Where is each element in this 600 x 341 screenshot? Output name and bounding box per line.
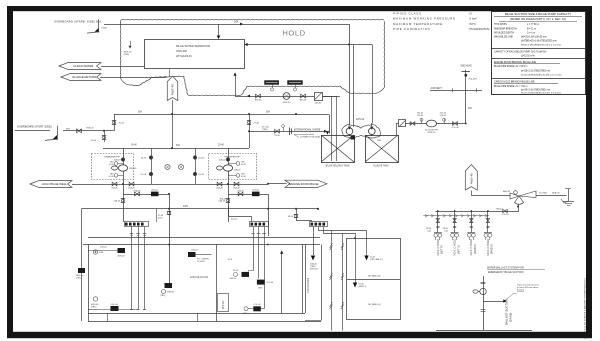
engine room boundary top upper <box>88 237 320 239</box>
wire main3 left drop <box>81 209 83 321</box>
wire valve down to manifold <box>436 205 519 212</box>
svg-text:26-40: 26-40 <box>119 123 125 125</box>
valve 25A-40 right b <box>234 182 239 186</box>
svg-text:4WS-50: 4WS-50 <box>428 132 436 134</box>
floor line <box>436 330 532 332</box>
wire branch to DB tank upper <box>332 231 367 256</box>
svg-text:24B-40: 24B-40 <box>219 201 226 203</box>
svg-text:250-40: 250-40 <box>417 115 424 117</box>
svg-text:25A-40: 25A-40 <box>233 187 240 190</box>
level switch box LS1 <box>265 81 280 85</box>
svg-text:DB TANK (H): DB TANK (H) <box>368 303 381 306</box>
wire pump feeds <box>348 125 351 128</box>
wire rose2 drops <box>253 226 255 270</box>
svg-text:ECR: ECR <box>228 259 233 261</box>
wire unit2 to rose2 <box>229 206 252 222</box>
overflow drop left of separator <box>130 41 132 46</box>
arrow up riser x282 <box>280 251 283 254</box>
svg-text:(TBD): (TBD) <box>102 28 108 30</box>
svg-text:COL-40: COL-40 <box>501 214 509 216</box>
rose box manifold 1 <box>125 222 149 227</box>
svg-text:34-40: 34-40 <box>233 270 239 272</box>
svg-text:30A-40: 30A-40 <box>114 159 121 162</box>
svg-text:INTERNATIONAL SHORE: INTERNATIONAL SHORE <box>294 129 321 132</box>
engine room bottom band <box>88 313 305 315</box>
gauge pair 3 <box>467 232 475 234</box>
pump unit 1 enclosure TRANSFER P/P <box>92 154 134 180</box>
wire hold pump discharge row <box>235 96 340 98</box>
valve 30-40 mid <box>149 156 152 159</box>
svg-text:42-40: 42-40 <box>241 176 246 178</box>
svg-text:AIR VENT: AIR VENT <box>431 87 443 90</box>
wire bilge pump suction header <box>103 148 249 150</box>
valve 31-40 <box>275 129 280 133</box>
svg-text:(AFT P): (AFT P) <box>441 245 444 254</box>
svg-text:38-40: 38-40 <box>288 216 294 218</box>
svg-text:(AFT S): (AFT S) <box>457 245 460 254</box>
valve with handwheel <box>480 288 486 294</box>
wire left wall stub <box>88 309 98 311</box>
ticks below manifold valves <box>436 226 439 228</box>
arrow into separator <box>217 36 221 40</box>
svg-text:CLEAN WATER: CLEAN WATER <box>73 64 93 68</box>
svg-text:SEA CH.: SEA CH. <box>552 191 560 194</box>
svg-text:(TBD): (TBD) <box>160 295 166 297</box>
svg-text:: 5 bar*: : 5 bar* <box>468 17 478 21</box>
svg-text:4WS: 4WS <box>183 206 188 208</box>
tank suction box <box>351 136 356 140</box>
svg-text:(LD): (LD) <box>427 230 431 232</box>
valve 33A-40 row2 <box>238 192 243 196</box>
svg-text:COFFERDAM: COFFERDAM <box>307 278 310 293</box>
manifold dashed line <box>423 215 489 217</box>
tank T2 sludge tank <box>366 136 399 163</box>
junction header 296 <box>295 113 297 115</box>
svg-text:dz=25+2.16√(TBD)(TBD) mm: dz=25+2.16√(TBD)(TBD) mm <box>521 69 550 72</box>
check valve 26-40 <box>112 120 116 122</box>
banner sludge outlet <box>61 74 101 81</box>
svg-text:HOLD: HOLD <box>282 28 305 37</box>
wire sludge discharge line <box>396 123 466 125</box>
junction sludge corner <box>465 123 467 125</box>
three-way valve BAL-A <box>510 193 519 199</box>
svg-text:(BASED ON RULES PART C, CH. 1,: (BASED ON RULES PART C, CH. 1, SEC. 10) <box>510 17 566 21</box>
valve 30A-40 unit1 <box>121 158 124 161</box>
black valve box row2 <box>252 192 260 197</box>
wire pennant to valve <box>472 191 511 196</box>
svg-text:TK 4WS: TK 4WS <box>197 261 205 263</box>
svg-text:31-40: 31-40 <box>274 135 280 137</box>
svg-text:CONNECTION 100A: CONNECTION 100A <box>300 135 320 138</box>
svg-text:(DN 65): (DN 65) <box>508 313 512 322</box>
wire strainer to drop <box>322 96 331 98</box>
wire riser 27-40 <box>249 114 251 131</box>
check valve 24B-40 unit1 <box>121 198 125 200</box>
svg-text:28-40: 28-40 <box>131 144 137 146</box>
arrow cofferdam discharge <box>311 256 315 261</box>
svg-text:100-40: 100-40 <box>198 158 205 160</box>
svg-text:4WS-200: 4WS-200 <box>176 49 187 53</box>
svg-text:250-40: 250-40 <box>440 115 447 117</box>
wire branch to ballast suction <box>483 301 504 303</box>
svg-text:MAIN BILGE LINE: MAIN BILGE LINE <box>494 36 513 39</box>
arrow DB tank lower suction <box>353 283 357 288</box>
valve manifold 3 <box>470 219 473 223</box>
wire riser emergency x282 <box>281 252 283 313</box>
arrow into separator right side <box>245 43 248 46</box>
valve 25A-40 left a <box>112 182 117 186</box>
svg-text:25B-40: 25B-40 <box>191 250 198 252</box>
svg-text:HOLD BILGE WELL: HOLD BILGE WELL <box>42 182 68 186</box>
wire separator feed line from pumps <box>235 74 237 97</box>
svg-text:BILGE PIPE INSIDE: dz = 7.52 m: BILGE PIPE INSIDE: dz = 7.52 m <box>494 86 527 88</box>
svg-text:CO-04: CO-04 <box>140 174 147 176</box>
svg-text:dH=25+1.68√L(B+D) mm: dH=25+1.68√L(B+D) mm <box>521 36 547 39</box>
wire elbow to rose3 <box>297 220 312 222</box>
svg-text:(TBD): (TBD) <box>91 306 97 308</box>
svg-text:EMERGENCY BILGE SUCTION: EMERGENCY BILGE SUCTION <box>488 271 524 274</box>
svg-text:BILGE SUCTION SIZE & BILGE PUM: BILGE SUCTION SIZE & BILGE PUMP CAPACITY <box>505 12 571 16</box>
svg-text:dz=50.04 (ROUNDED 50 DN 2 X 2.: dz=50.04 (ROUNDED 50 DN 2 X 2.3 mm) <box>521 74 562 76</box>
instrument lower left <box>93 297 97 301</box>
pennant ballast crossover <box>465 165 477 191</box>
wire pump2 drop <box>228 148 230 184</box>
wire drop to bottom well <box>261 308 265 310</box>
svg-text:: PN10(DIN2576): : PN10(DIN2576) <box>468 27 490 31</box>
pump P-hold 4WS <box>283 93 290 100</box>
valve OVB-40 <box>77 129 82 133</box>
svg-text:SND HEAD: SND HEAD <box>460 65 472 68</box>
svg-text:24B-40: 24B-40 <box>114 201 121 203</box>
gauge unit1 upper <box>118 163 123 165</box>
wire overboard port line <box>15 130 50 132</box>
junction pennant header <box>171 147 173 149</box>
banner bilge water outlet <box>59 63 101 70</box>
svg-text:dz=25+2.16√(TBD)(TBD) mm: dz=25+2.16√(TBD)(TBD) mm <box>521 89 550 92</box>
check valve 27-40 <box>247 120 251 122</box>
svg-text:4WS-xx: 4WS-xx <box>243 313 250 315</box>
black box B <box>257 280 265 285</box>
valve 25A-40 left b <box>129 182 134 186</box>
svg-text:(TBD): (TBD) <box>76 277 82 279</box>
svg-text:4WS-TK: 4WS-TK <box>124 51 133 53</box>
bilge well center box <box>165 283 173 288</box>
valve manifold 2 <box>453 219 456 223</box>
svg-text:29-40: 29-40 <box>218 144 224 146</box>
wire rose3 drop cofferdam <box>313 226 315 255</box>
svg-text:50A: 50A <box>138 110 142 113</box>
junction rose3 feed <box>295 208 297 210</box>
svg-text:dz=41.37 (ROUNDED 40 DN 2 X 2.: dz=41.37 (ROUNDED 40 DN 2 X 2.3 mm) <box>521 92 561 94</box>
pipe breaks on vertical 2 <box>341 243 344 247</box>
pump motor unit2 <box>217 166 223 170</box>
svg-text:L = 77.80 m: L = 77.80 m <box>527 24 539 26</box>
svg-text:25A-40: 25A-40 <box>128 187 135 190</box>
valve manifold 1 <box>436 219 439 223</box>
wire branch row unit2 <box>228 184 230 222</box>
svg-text:4WS: 4WS <box>99 252 104 254</box>
valve manifold 4 <box>486 219 489 223</box>
svg-text:250-40℅: 250-40℅ <box>469 78 478 81</box>
junction hold line <box>348 44 350 46</box>
wire tank2 stub up <box>396 124 398 136</box>
svg-text:CO-04: CO-04 <box>198 174 205 176</box>
wire manifold drop 3 <box>471 211 473 233</box>
svg-text:41-40: 41-40 <box>241 164 246 166</box>
banner engine room bilge main <box>285 180 327 187</box>
svg-text:4WS-30: 4WS-30 <box>129 168 137 170</box>
wire rose3 drop to break pipe 2 <box>324 227 343 331</box>
valve BW-40 left <box>256 94 261 98</box>
rose box manifold 3 <box>310 222 328 227</box>
wire emergency suction pipe <box>483 276 485 330</box>
svg-text:BAL-40: BAL-40 <box>503 190 511 193</box>
black valve box row1 <box>151 192 159 197</box>
svg-text:4WS-05: 4WS-05 <box>167 292 175 294</box>
banner hold bilge well <box>30 181 72 188</box>
junction below valve <box>517 206 519 208</box>
svg-text:(TBD) BAL-10: (TBD) BAL-10 <box>370 258 384 261</box>
svg-text:33A-40: 33A-40 <box>237 189 244 192</box>
strainer S1 square <box>315 93 323 101</box>
svg-text:COL-40: COL-40 <box>110 304 118 306</box>
svg-text:(FWD S): (FWD S) <box>491 244 494 254</box>
svg-text:ENGINE ROOM: ENGINE ROOM <box>190 276 208 279</box>
svg-text:MAXIMUM WORKING PRESSURE: MAXIMUM WORKING PRESSURE <box>393 17 456 21</box>
svg-text:dH=62.5 (ROUNDED 65 DN 1 X 2.5: dH=62.5 (ROUNDED 65 DN 1 X 2.5 mm) <box>521 45 561 47</box>
engine room right double wall <box>302 245 304 314</box>
gauge unit2 lower <box>228 175 236 177</box>
check valve 24B-40 unit2 <box>226 198 230 200</box>
valve CO-04 mid <box>149 172 152 175</box>
arrow DB tank upper suction <box>364 256 368 261</box>
svg-text:COL-40: COL-40 <box>266 282 274 284</box>
deck ticks rose1 <box>130 233 134 235</box>
valve CO-04 right col <box>193 172 196 175</box>
junction main3 vertical 169 <box>168 208 170 210</box>
svg-text:(LD): (LD) <box>444 230 448 232</box>
svg-text:SLUDGE TANK: SLUDGE TANK <box>373 165 389 168</box>
pump sludge P/P <box>427 120 437 127</box>
deck ticks rose2 <box>251 233 255 235</box>
pump P2 on sludge tank <box>369 128 376 135</box>
svg-text:50A: 50A <box>234 21 239 24</box>
svg-text:COL-40: COL-40 <box>451 127 459 129</box>
wire pennant stem down <box>172 100 174 148</box>
junction direct suction main3 <box>267 208 269 210</box>
svg-text:B = 11 m: B = 11 m <box>527 28 536 30</box>
wire branch to DB tank lower <box>343 234 356 283</box>
svg-text:Q=23.02 m³/h: Q=23.02 m³/h <box>521 54 535 57</box>
valve 25A-40 right a <box>217 182 222 186</box>
svg-text:(TBD): (TBD) <box>124 54 130 56</box>
arrow left on pump row <box>247 95 250 98</box>
wire manifold drop 1 <box>437 211 439 233</box>
svg-text:COL-40: COL-40 <box>253 304 261 306</box>
WS CO box <box>218 294 229 312</box>
svg-text:(TBD): (TBD) <box>262 129 268 131</box>
end tick main3 <box>317 208 319 210</box>
pump unit2 main <box>223 165 232 171</box>
junction unit1 header2 <box>122 183 124 185</box>
wire overboard starboard line <box>104 24 349 26</box>
wire rose1 drops <box>131 226 133 309</box>
wire drain below port line <box>104 131 106 142</box>
svg-text:27-40: 27-40 <box>254 123 260 125</box>
svg-text:MAXIMUM TEMPERATURE: MAXIMUM TEMPERATURE <box>393 22 443 26</box>
wire pumps to tank tops <box>349 135 351 136</box>
svg-text:600-40: 600-40 <box>231 219 238 221</box>
wire sounding pipe <box>465 74 467 124</box>
svg-text:50A-40: 50A-40 <box>310 262 318 265</box>
DB tank box <box>347 239 401 320</box>
gauge pair 2 <box>451 232 459 234</box>
svg-text:at least 450 mm above: at least 450 mm above <box>517 286 539 289</box>
overboard discharge symbol port <box>57 126 59 140</box>
junction port line <box>103 130 105 132</box>
gauge shore <box>283 127 285 131</box>
wire manifold drop 2 <box>454 211 456 233</box>
valve 100-40 right col <box>193 156 196 159</box>
svg-text:30A-40: 30A-40 <box>219 159 226 162</box>
pump motor unit1 <box>112 166 118 170</box>
flange international shore connection <box>289 128 291 136</box>
instrument circle A <box>165 164 170 169</box>
wire separator drain to pennant <box>169 69 171 76</box>
svg-text:BALLAST SUCTION: BALLAST SUCTION <box>505 299 509 325</box>
wire shore connection line <box>249 131 326 133</box>
check valve 35-40 center <box>167 211 171 213</box>
svg-text:4WS-xx: 4WS-xx <box>230 278 237 280</box>
svg-text:TRANSFER P/P: TRANSFER P/P <box>104 155 120 158</box>
svg-text:4WS-30: 4WS-30 <box>283 102 291 104</box>
junction header pennant <box>171 113 173 115</box>
svg-text:SLUDGE RETURN: SLUDGE RETURN <box>72 75 96 79</box>
wire drop pair to tank1 <box>331 96 333 161</box>
svg-text:BILGE PIPE INSIDE: dz = 53.5: BILGE PIPE INSIDE: dz = 53.5 m <box>494 66 527 68</box>
svg-text:30A-40: 30A-40 <box>234 169 241 172</box>
svg-text:4WS-20: 4WS-20 <box>356 119 365 121</box>
cofferdam wall <box>321 245 323 321</box>
pump unit 2 enclosure TRANSFER P/P <box>209 154 257 180</box>
gauge pair 1 <box>434 232 442 234</box>
separator unit box 4WS-200 <box>145 40 245 69</box>
instrument circle B <box>178 164 183 169</box>
svg-text:(DBW-1): (DBW-1) <box>359 286 367 288</box>
wire pump1 drop <box>123 148 125 184</box>
sea chest symbol <box>568 189 570 201</box>
check valve 38-40 rose3 <box>294 214 298 216</box>
flow arrow on top line <box>240 23 243 26</box>
svg-text:OVERBOARD (STARB. SIDE) 50A: OVERBOARD (STARB. SIDE) 50A <box>54 20 101 24</box>
check valve drain port <box>102 135 106 137</box>
bell mouths rose1 <box>130 309 133 311</box>
border frame <box>7 6 592 11</box>
svg-text:BW-40: BW-40 <box>300 100 307 102</box>
pennant node bilge main <box>167 76 178 101</box>
svg-text:Valve hand wheel to be: Valve hand wheel to be <box>517 283 540 286</box>
deck level line air vent <box>430 90 482 92</box>
wire center drop to bilge well <box>169 194 171 284</box>
junction banner feed <box>267 183 269 185</box>
svg-text:25B-40: 25B-40 <box>100 246 107 248</box>
wire main3 to rose3 <box>296 209 298 221</box>
black box COL-40 left <box>111 306 119 311</box>
wire drop to separator box <box>218 24 220 36</box>
gauge pair 4 <box>484 232 492 234</box>
wire second suction header <box>103 184 268 186</box>
svg-text:(FWD P): (FWD P) <box>474 244 477 254</box>
svg-text:DB TANK (B): DB TANK (B) <box>368 274 381 277</box>
pipe breaks on vertical 1 <box>329 243 332 247</box>
svg-text:34T-40: 34T-40 <box>252 189 259 191</box>
svg-text:NO.1 C.HOLD: NO.1 C.HOLD <box>469 239 473 256</box>
valve BW-40 right <box>301 94 306 98</box>
wire separator line corner down <box>372 45 374 124</box>
svg-text:BILGE WATER SEPARATOR: BILGE WATER SEPARATOR <box>176 44 210 48</box>
engine room left wall <box>88 245 90 314</box>
ticks emergency pipe <box>481 282 486 284</box>
svg-text:D = 6 m: D = 6 m <box>527 32 535 34</box>
wire short drop x156 <box>156 209 158 222</box>
wire branch row unit1 <box>123 184 125 222</box>
wire corner to tank1 <box>329 115 331 134</box>
valve COL-40 sludge <box>453 122 458 126</box>
overboard discharge symbol starboard <box>98 19 100 32</box>
svg-text:34T-40: 34T-40 <box>315 102 322 104</box>
svg-text:25A-40: 25A-40 <box>216 187 223 190</box>
svg-text:30-40: 30-40 <box>141 158 147 160</box>
wire rose3 drop to break pipe 1 <box>319 227 332 331</box>
wire right column <box>195 148 197 184</box>
svg-text:42-40: 42-40 <box>109 176 114 178</box>
tank pumps cloud <box>342 125 381 136</box>
arrow ballast suction <box>503 299 506 302</box>
wire banner to header2 <box>72 184 103 186</box>
junction header 249 <box>248 113 250 115</box>
wire manifold drop 4 <box>487 211 489 233</box>
svg-text:4WS-40: 4WS-40 <box>470 173 474 184</box>
svg-text:OVERBOARD (PORT SIDE): OVERBOARD (PORT SIDE) <box>17 124 52 128</box>
svg-text:NRC: NRC <box>66 129 71 131</box>
level switch box LS2 <box>288 81 303 85</box>
engine room boundary top <box>83 244 320 246</box>
svg-text:MOULDED DEPTH: MOULDED DEPTH <box>494 32 514 34</box>
pump P1 on bilge holding tank <box>346 128 353 135</box>
svg-text:26-40: 26-40 <box>91 140 97 142</box>
hold boundary cloud <box>119 20 122 79</box>
instrument bilge well left <box>93 250 97 254</box>
svg-text:OVB-40: OVB-40 <box>86 128 94 130</box>
arrow up into separator <box>233 73 236 76</box>
wire riser from header to suction header <box>249 131 251 148</box>
wire riser port side <box>114 114 116 131</box>
svg-text:: III: : III <box>468 11 472 15</box>
wire middle column <box>151 148 153 184</box>
pump unit1 main <box>118 165 127 171</box>
svg-text:NO.1 C.HOLD: NO.1 C.HOLD <box>436 239 440 256</box>
wire valve to sea chest <box>536 195 567 197</box>
gauge unit1 lower <box>118 175 123 177</box>
junction dots on ER top <box>168 244 170 246</box>
svg-text:4WS 5.0 dwg 102-03 BILGE & BAL: 4WS 5.0 dwg 102-03 BILGE & BALLAST SYSTE… <box>584 277 587 339</box>
svg-text:: 50°C: : 50°C <box>468 22 476 26</box>
svg-text:ENGINE ROOM BILGE: ENGINE ROOM BILGE <box>289 182 318 186</box>
junction DB top <box>354 237 356 239</box>
gauge unit2 upper <box>228 163 236 165</box>
wire floor suction left <box>98 309 138 311</box>
svg-text:W.S/CO: W.S/CO <box>223 300 225 309</box>
